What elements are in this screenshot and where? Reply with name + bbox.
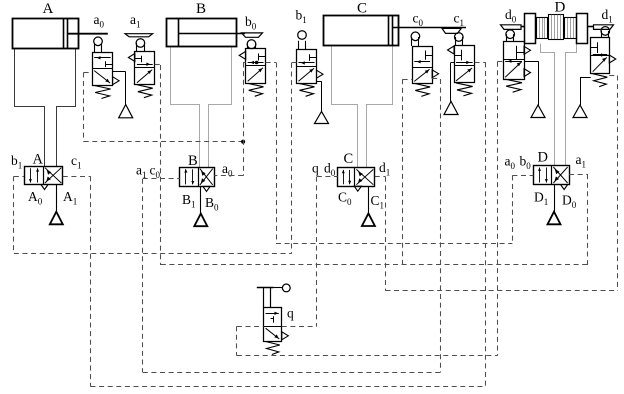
- svg-text:A: A: [43, 1, 54, 17]
- svg-text:q: q: [287, 306, 294, 321]
- svg-text:q: q: [312, 161, 319, 176]
- svg-text:C: C: [357, 1, 367, 17]
- svg-text:A: A: [33, 152, 44, 168]
- svg-text:C: C: [344, 151, 354, 167]
- svg-text:B: B: [196, 1, 206, 17]
- svg-text:D: D: [555, 0, 566, 16]
- svg-text:B: B: [188, 153, 198, 169]
- svg-text:D: D: [538, 150, 548, 166]
